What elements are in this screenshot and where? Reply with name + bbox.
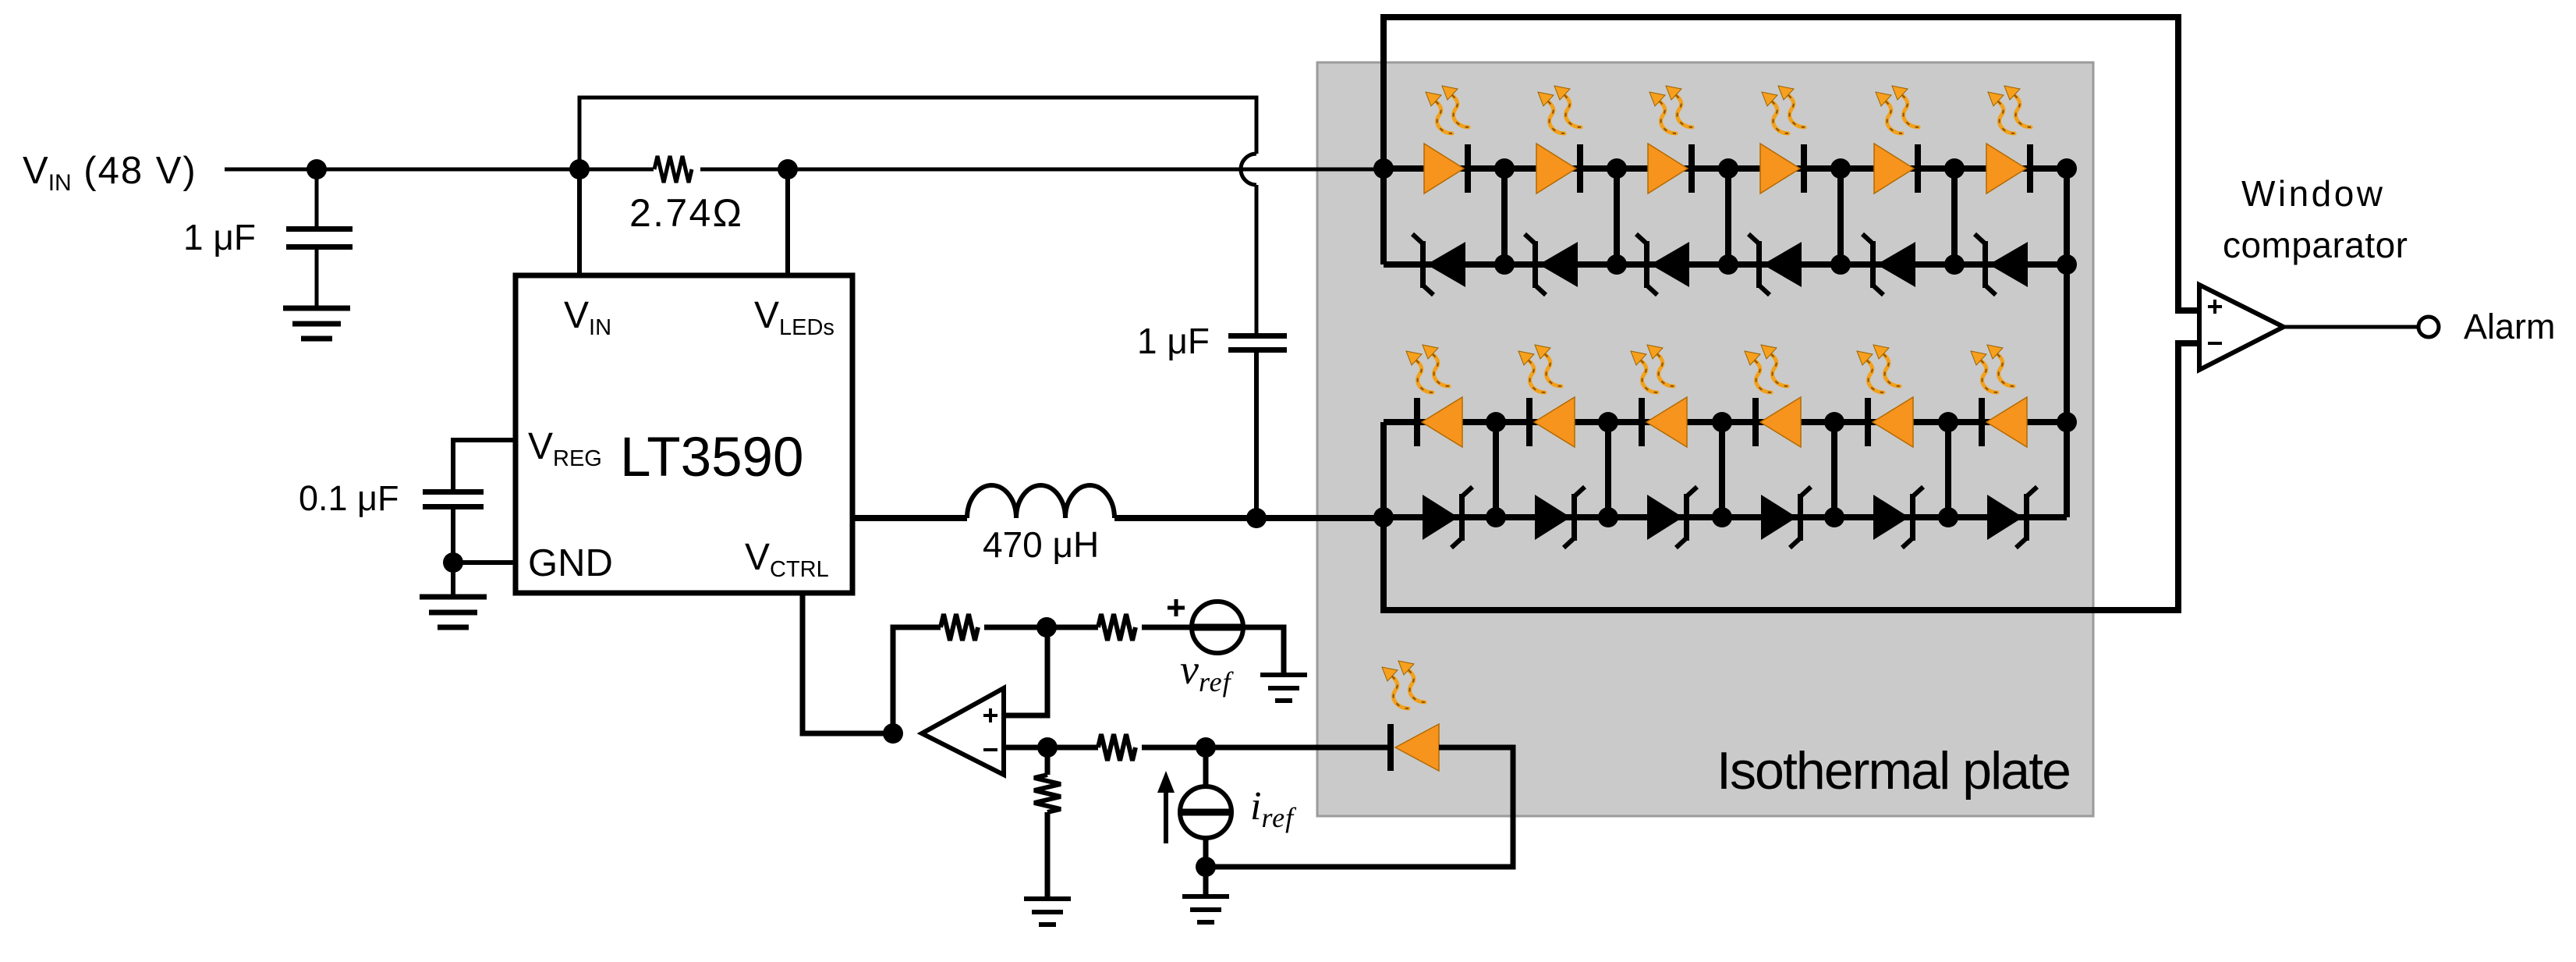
wire iref node to source [1203,747,1209,786]
wire GND pin stub [453,560,516,565]
capacitor C1 1uF [183,169,353,308]
light rays D11 [1857,345,1900,392]
wire LED string 1 rail [1384,165,2067,172]
light rays D3 [1649,86,1692,133]
wire comparator + loop (top) [1384,17,2199,311]
ground below iref [1182,896,1229,922]
svg-text:Alarm: Alarm [2464,307,2556,346]
wire switch output to inductor [853,515,967,521]
node GND junction [443,552,463,573]
ground below R5 [1024,899,1071,925]
node - input junction [1037,737,1058,758]
wire row1 interconnects [1504,169,1954,264]
zener Z7 [1423,487,1472,548]
zener Z4 [1749,234,1802,295]
wire zener string 2 rail [1384,514,2067,520]
zener Z8 [1535,487,1585,548]
LED D13 reference [1387,724,1439,771]
resistor R3 to vref [1098,614,1136,641]
LED D7 [1414,397,1462,447]
svg-text:1 μF: 1 μF [183,217,256,257]
wire - node to R4 [1047,745,1098,751]
svg-text:470 μH: 470 μH [983,524,1099,565]
svg-text:0.1 μF: 0.1 μF [299,478,399,518]
light rays D10 [1745,345,1788,392]
zener Z6 [1975,234,2028,295]
wire R5 to ground [1045,812,1051,899]
wire feedback loop [893,627,941,733]
wire + node to R3 [1047,625,1098,630]
label Window comparator [2223,173,2408,265]
LED D12 [1979,397,2027,447]
light rays D9 [1631,345,1674,392]
LED D10 [1752,397,1801,447]
node VIN pin junction [569,159,590,179]
source vref [1168,599,1243,698]
svg-text:GND: GND [528,542,613,584]
LED D3 [1648,144,1695,193]
wire R4 to iref node and LED [1142,745,1388,751]
comparator U3 window comparator [2199,285,2284,370]
wire row2 interconnects [1496,422,1948,517]
wire - node to R5 [1045,747,1051,775]
node VLEDs pin junction [778,159,798,179]
wire VCTRL to op-amp output [803,593,893,733]
LED D2 [1536,144,1583,193]
LED D6 [1986,144,2033,193]
svg-text:1 μF: 1 μF [1137,321,1210,361]
ground below GND pin [420,597,487,627]
wire from hop down to C2 [1255,185,1259,333]
wire VLEDs pin [785,169,790,275]
light rays D6 [1988,86,2031,133]
light rays D12 [1971,345,2014,392]
source iref [1180,784,1297,838]
op-amp U2 LT3590 regulator box [516,275,852,593]
wire iref source to return node [1203,838,1209,896]
wire feedback to + node [984,625,1047,630]
wire R3 to vref source [1142,625,1192,630]
zener Z5 [1862,234,1915,295]
LED D9 [1639,397,1687,447]
node Alarm terminal [2418,317,2439,337]
LED D1 [1424,144,1471,193]
wire comparator output [2284,325,2418,329]
svg-text:2.74Ω: 2.74Ω [629,191,742,235]
array junction dots [1246,158,2077,528]
wire comparator - loop (bottom) [1384,343,2199,610]
LED D8 [1526,397,1575,447]
LED D5 [1874,144,1921,193]
wire C2 to switch node [1254,353,1259,518]
svg-text:Isothermal plate: Isothermal plate [1717,741,2071,800]
zener Z3 [1636,234,1689,295]
capacitor C3 0.1uF [299,478,484,518]
zener Z11 [1873,487,1923,548]
node C1 junction [306,159,327,179]
light rays D7 [1406,345,1449,392]
resistor R1 2.74ohm [629,154,742,235]
arrow iref direction [1157,771,1175,843]
zener Z1 [1412,234,1465,295]
wire right side string link [2064,169,2070,517]
light rays D4 [1762,86,1805,133]
node iref bottom junction [1196,857,1216,877]
node op-amp output junction [883,723,903,744]
wire VREG stub [453,440,516,489]
resistor R4 to iref node [1098,734,1136,761]
ground below vref [1260,675,1307,701]
wire inductor to LED array [1114,515,1384,521]
LED D4 [1760,144,1807,193]
wire + input stub [1004,627,1047,715]
wire VIN pin [577,169,582,275]
wire VIN rail [225,168,1384,172]
wire top loop from VIN node to C2 [579,98,1256,169]
wire - input stub [1004,745,1047,751]
LED D11 [1865,397,1913,447]
svg-text:comparator: comparator [2223,225,2408,265]
light rays D5 [1876,86,1919,133]
wire D13 to iref return loop [1206,747,1513,867]
zener Z12 [1987,487,2037,548]
light rays D8 [1518,345,1561,392]
wire vref to ground [1243,627,1284,675]
wire LED string 2 rail [1384,419,2067,425]
node iref top junction [1196,737,1216,758]
light rays D2 [1538,86,1581,133]
zener Z10 [1761,487,1811,548]
node + input junction [1036,617,1057,637]
isothermal plate region [1317,62,2093,816]
light rays D1 [1426,86,1469,133]
wire zener string 1 rail [1384,261,2067,268]
resistor R5 to ground [1034,775,1061,812]
ground below C1 [283,308,350,339]
capacitor C2 1uF [1137,321,1287,361]
light rays D13 [1382,661,1425,708]
op-amp U1 [922,688,1004,775]
zener Z9 [1647,487,1697,548]
wire hop over VIN rail [1241,154,1256,185]
svg-text:Window: Window [2241,173,2383,214]
zener Z2 [1525,234,1578,295]
svg-text:LT3590: LT3590 [620,427,804,488]
wire C3 to GND node [451,509,455,597]
resistor R2 feedback [941,614,978,641]
inductor L1 470uH [967,485,1114,565]
